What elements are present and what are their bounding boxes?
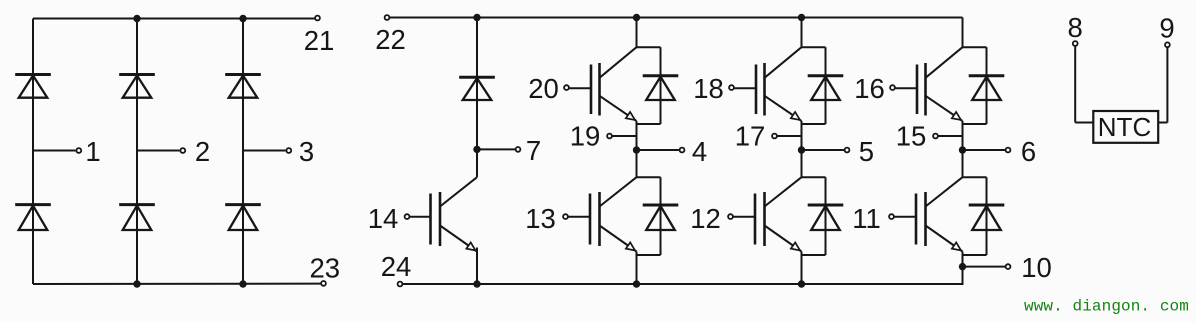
wire: rectifier phase leg 3: [242, 19, 244, 285]
freewheel diode leg U bottom: [637, 177, 679, 255]
NTC thermistor: [1093, 111, 1158, 143]
svg-text:2: 2: [195, 136, 210, 167]
terminal 12 (bottom gate): [690, 203, 733, 234]
svg-text:11: 11: [852, 203, 881, 234]
junction: output node 4: [633, 146, 640, 153]
wire: leg W bottom emitter to DC- rail: [962, 252, 964, 285]
wire: inverter DC+ rail: [390, 17, 963, 19]
wire: leg V top IGBT collector (rail to symbol): [801, 18, 803, 48]
svg-text:3: 3: [299, 136, 314, 167]
svg-text:4: 4: [692, 136, 707, 167]
wire: rectifier DC- bottom rail: [33, 283, 321, 285]
wire: node 7 tap: [477, 148, 515, 150]
bottom IGBT leg U (gate 13): [569, 177, 638, 253]
junction: DC+ rail / leg V: [798, 14, 805, 21]
terminal 20 (top gate): [528, 73, 569, 104]
svg-text:16: 16: [854, 73, 885, 104]
junction: output node 5: [798, 146, 805, 153]
svg-text:23: 23: [310, 252, 341, 283]
junction: top rail / phase 3: [239, 15, 246, 22]
svg-text:22: 22: [375, 24, 406, 55]
terminal 15 (aux emitter): [896, 121, 938, 152]
terminal 22 (inverter DC+): [375, 15, 406, 55]
junction: bottom rail / phase 3: [239, 280, 246, 287]
svg-text:10: 10: [1021, 252, 1052, 283]
svg-text:21: 21: [304, 25, 335, 56]
top IGBT leg U (gate 20): [570, 47, 638, 123]
svg-text:14: 14: [368, 203, 399, 234]
svg-text:NTC: NTC: [1098, 112, 1151, 142]
svg-text:www. diangon. com: www. diangon. com: [1024, 298, 1189, 316]
wire: aux emitter tap 15: [939, 135, 963, 137]
wire: brake IGBT emitter to DC- rail: [476, 248, 478, 285]
svg-text:1: 1: [85, 136, 100, 167]
wire: tap to terminal 10: [963, 266, 1006, 268]
svg-text:6: 6: [1021, 136, 1036, 167]
svg-text:15: 15: [896, 121, 927, 152]
terminal 14 (brake gate): [368, 203, 410, 234]
terminal 8 (NTC): [1068, 12, 1083, 46]
junction: top rail / phase 2: [133, 15, 140, 22]
rectifier diode D1 (upper, phase 1): [15, 75, 51, 98]
wire: output tap 6: [963, 149, 1006, 151]
junction: node 10 (leg W emitter sense): [959, 263, 966, 270]
wire: leg U midpoint (emitter to output node): [636, 121, 638, 178]
wire: leg V midpoint (emitter to output node): [801, 121, 803, 178]
terminal 16 (top gate): [854, 73, 895, 104]
top IGBT leg W (gate 16): [896, 47, 964, 123]
bottom IGBT leg W (gate 11): [895, 177, 964, 253]
junction: DC+ rail / leg U: [633, 14, 640, 21]
bottom IGBT leg V (gate 12): [734, 177, 803, 253]
rectifier diode D6 (lower, phase 3): [225, 205, 261, 230]
svg-text:17: 17: [735, 121, 766, 152]
junction: DC- rail / leg V: [798, 280, 805, 287]
terminal 23 (rectifier DC-): [310, 252, 341, 286]
svg-text:5: 5: [859, 136, 874, 167]
svg-text:12: 12: [690, 203, 721, 234]
wire: NTC left lead: [1075, 47, 1093, 123]
junction: bottom rail / phase 2: [133, 280, 140, 287]
terminal 9 (NTC): [1159, 13, 1174, 48]
freewheel diode leg W bottom: [963, 177, 1005, 255]
freewheel diode leg W top: [963, 47, 1005, 124]
junction: DC- rail / brake leg: [473, 280, 480, 287]
freewheel diode leg U top: [637, 47, 679, 124]
terminal 11 (bottom gate): [852, 203, 894, 234]
junction: output node 6: [959, 146, 966, 153]
terminal 5 (phase output): [845, 136, 874, 167]
wire: brake IGBT collector stub: [476, 149, 478, 177]
wire: brake chopper leg upper (DC+ to node 7): [476, 18, 478, 150]
terminal 21 (rectifier DC+): [304, 16, 335, 56]
wire: inverter DC- rail: [403, 283, 964, 285]
wire: rectifier DC+ top rail: [33, 18, 315, 20]
brake IGBT (gate terminal 14): [409, 177, 478, 253]
freewheel diode leg V top: [802, 47, 844, 124]
wire: rectifier phase leg 1: [32, 19, 34, 285]
svg-text:24: 24: [381, 251, 412, 282]
terminal 3 (AC input): [286, 136, 314, 167]
rectifier diode D5 (lower, phase 2): [119, 205, 155, 230]
wire: output tap 4: [637, 149, 680, 151]
junction: DC+ rail / brake leg: [473, 14, 480, 21]
terminal 4 (phase output): [680, 136, 708, 167]
wire: leg U top IGBT collector (rail to symbol): [636, 18, 638, 48]
wire: leg U bottom emitter to DC- rail: [636, 252, 638, 285]
rectifier diode D4 (lower, phase 1): [15, 205, 51, 230]
wire: AC input tap node 1: [33, 150, 76, 152]
wire: aux emitter tap 17: [778, 135, 802, 137]
wire: AC input tap node 2: [137, 150, 180, 152]
terminal 6 (phase output): [1006, 136, 1037, 167]
wire: leg W top IGBT collector (rail to symbol): [962, 18, 964, 48]
svg-text:7: 7: [526, 135, 541, 166]
junction: DC- rail / leg U: [633, 280, 640, 287]
wire: leg W midpoint (emitter to output node): [962, 121, 964, 178]
terminal 13 (bottom gate): [525, 203, 568, 234]
rectifier diode D2 (upper, phase 2): [119, 75, 155, 98]
svg-text:9: 9: [1159, 13, 1174, 44]
terminal 17 (aux emitter): [735, 121, 777, 152]
terminal 10 (inverter emitter / DC- sense): [1006, 252, 1052, 283]
svg-text:13: 13: [525, 203, 556, 234]
wire: NTC right lead: [1158, 48, 1167, 123]
svg-text:20: 20: [528, 73, 559, 104]
top IGBT leg V (gate 18): [735, 47, 803, 123]
terminal 2 (AC input): [180, 136, 210, 167]
svg-text:8: 8: [1068, 12, 1083, 43]
brake diode: [459, 77, 495, 100]
wire: aux emitter tap 19: [613, 135, 637, 137]
wire: rectifier phase leg 2: [136, 19, 138, 285]
terminal 1 (AC input): [76, 136, 100, 167]
svg-text:18: 18: [693, 73, 724, 104]
terminal 19 (aux emitter): [570, 121, 612, 152]
rectifier diode D3 (upper, phase 3): [225, 75, 261, 98]
terminal 18 (top gate): [693, 73, 734, 104]
terminal 7 (brake resistor output): [516, 135, 542, 166]
terminal 24 (inverter DC-): [381, 251, 412, 286]
svg-text:19: 19: [570, 121, 601, 152]
wire: AC input tap node 3: [243, 150, 286, 152]
wire: output tap 5: [802, 149, 845, 151]
freewheel diode leg V bottom: [802, 177, 844, 255]
junction: node 7: [473, 146, 480, 153]
wire: leg V bottom emitter to DC- rail: [801, 252, 803, 285]
